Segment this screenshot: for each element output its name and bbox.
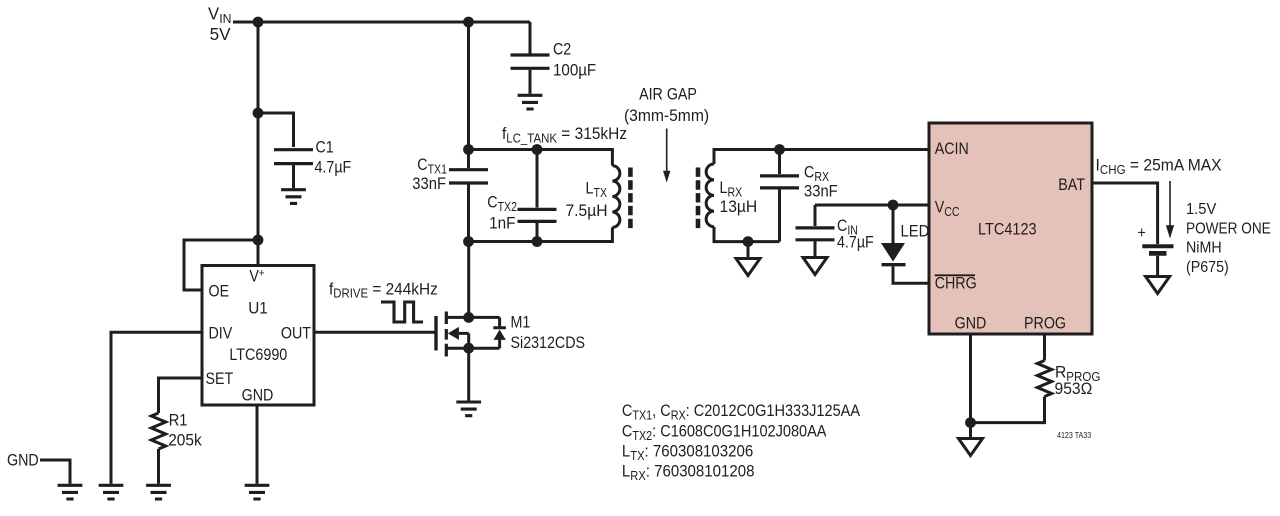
wire CIN top stub xyxy=(814,205,817,226)
junction M1 source xyxy=(463,343,474,354)
svg-text:(P675): (P675) xyxy=(1186,259,1229,276)
svg-text:7.5µH: 7.5µH xyxy=(565,201,607,220)
wire LRX bottom stub xyxy=(713,227,716,243)
wire LTX top stub xyxy=(611,148,614,166)
svg-text:CTX2: CTX2 xyxy=(487,193,517,214)
svg-text:fLC_TANK = 315kHz: fLC_TANK = 315kHz xyxy=(502,124,627,145)
svg-text:ACIN: ACIN xyxy=(935,140,969,158)
junction VIN-CTX1 branch xyxy=(463,17,474,28)
junction V+ OE xyxy=(253,235,264,246)
transistor M1 channel contacts xyxy=(445,312,448,357)
svg-text:SET: SET xyxy=(206,370,234,388)
svg-text:ICHG = 25mA MAX: ICHG = 25mA MAX xyxy=(1096,156,1222,177)
wire OUT to M1 gate xyxy=(313,331,436,334)
ground under C2 xyxy=(518,95,543,109)
svg-text:LRX: 760308101208: LRX: 760308101208 xyxy=(622,462,755,483)
svg-text:(3mm-5mm): (3mm-5mm) xyxy=(624,106,709,125)
svg-text:AIR GAP: AIR GAP xyxy=(639,85,697,103)
svg-text:33nF: 33nF xyxy=(804,183,838,201)
wire CTX2 bottom stub xyxy=(536,223,539,242)
svg-text:CTX1, CRX: C2012C0G1H333J125AA: CTX1, CRX: C2012C0G1H333J125AA xyxy=(622,402,861,422)
capacitor CRX xyxy=(760,176,799,188)
svg-text:fDRIVE = 244kHz: fDRIVE = 244kHz xyxy=(329,280,438,301)
wire LTX bottom stub xyxy=(611,227,614,243)
wire LED anode xyxy=(892,205,895,243)
wire C1 branch xyxy=(258,113,294,147)
wire C1 bottom stub xyxy=(292,165,295,188)
svg-text:953Ω: 953Ω xyxy=(1055,379,1093,398)
svg-text:LTC6990: LTC6990 xyxy=(229,346,287,364)
svg-text:R1: R1 xyxy=(169,412,188,430)
wire RPROG to GND junction xyxy=(971,397,1045,423)
wire RX ground stub xyxy=(747,242,750,257)
svg-text:LTX: LTX xyxy=(586,179,608,200)
svg-text:4123 TA33: 4123 TA33 xyxy=(1057,430,1092,440)
wire CTX1 lower stub xyxy=(467,184,470,241)
wire PROG to RPROG xyxy=(1043,334,1046,361)
junction tank top left xyxy=(463,144,474,155)
charge current arrow xyxy=(1166,181,1174,239)
wire LRX top stub xyxy=(713,148,716,164)
op-amp U1 LTC6990 box xyxy=(202,266,314,406)
svg-text:LTC4123: LTC4123 xyxy=(978,220,1037,238)
svg-text:U1: U1 xyxy=(248,299,268,318)
wire CTX1 vertical xyxy=(467,22,470,168)
LED D1 xyxy=(881,243,906,265)
ground under DIV wire xyxy=(99,485,124,499)
svg-text:VIN: VIN xyxy=(208,3,231,26)
wire LED cathode to CHRG xyxy=(893,266,929,283)
RX core dashed line xyxy=(696,168,701,230)
junction GND PROG xyxy=(965,417,976,428)
wire VIN down to U1 xyxy=(257,22,260,266)
wire CIN bottom stub xyxy=(814,241,817,256)
capacitor C1 xyxy=(274,150,313,164)
ground under C1 xyxy=(281,190,306,204)
junction VIN-C1 branch xyxy=(253,17,264,28)
svg-text:1.5V: 1.5V xyxy=(1186,201,1217,218)
wire CTX2 top stub xyxy=(536,150,539,208)
svg-text:PROG: PROG xyxy=(1024,314,1066,332)
svg-text:4.7µF: 4.7µF xyxy=(837,233,874,251)
wire RX top rail to ACIN xyxy=(714,148,929,151)
wire drain up to tank xyxy=(467,242,470,318)
capacitor CTX2 xyxy=(518,209,557,221)
junction C1 tap xyxy=(253,108,264,119)
wire OE to V+ rail xyxy=(184,240,258,290)
junction RX ground xyxy=(743,236,754,247)
svg-text:OE: OE xyxy=(209,282,230,300)
svg-text:GND: GND xyxy=(955,314,987,332)
junction CTX2 top xyxy=(532,144,543,155)
svg-text:GND: GND xyxy=(7,451,39,469)
junction LED tap xyxy=(888,200,899,211)
wire M1 source to ground xyxy=(467,348,470,400)
resistor R1 xyxy=(151,413,165,449)
wire GND net xyxy=(40,460,70,484)
CHRG overline xyxy=(935,274,975,276)
body diode of M1 xyxy=(493,317,506,348)
svg-text:33nF: 33nF xyxy=(412,175,446,193)
ground under M1 xyxy=(456,402,481,416)
wire M1 source xyxy=(446,347,499,350)
svg-text:1nF: 1nF xyxy=(489,214,515,233)
wire C2 bottom stub xyxy=(529,70,532,94)
svg-text:C1: C1 xyxy=(316,138,334,156)
wire U1 GND pin to ground xyxy=(256,405,259,484)
wire battery to ground xyxy=(1156,256,1159,275)
capacitor CTX1 xyxy=(449,170,488,183)
wire LTC4123 GND to ground xyxy=(969,334,972,423)
wire VCC rail xyxy=(815,204,929,207)
wire C2 top stub xyxy=(529,22,532,54)
wire V+ stub xyxy=(257,240,260,266)
wire VIN top rail xyxy=(233,21,530,24)
svg-text:BAT: BAT xyxy=(1058,176,1085,194)
inductor LTX xyxy=(612,166,619,228)
square wave symbol xyxy=(381,302,423,322)
wire CRX top stub xyxy=(778,150,781,175)
battery BT1 xyxy=(1142,246,1173,253)
ground RX triangle xyxy=(736,259,760,276)
ground LTC4123 triangle xyxy=(959,439,983,456)
ground battery triangle xyxy=(1146,277,1170,294)
wire BAT to battery xyxy=(1092,183,1158,244)
inductor LRX xyxy=(706,164,714,227)
svg-text:M1: M1 xyxy=(511,313,531,331)
svg-text:13µH: 13µH xyxy=(720,197,758,216)
ground symbol GND net xyxy=(58,485,83,499)
svg-text:C2: C2 xyxy=(553,40,571,58)
wire GND junction stub xyxy=(969,423,972,437)
svg-text:+: + xyxy=(1138,224,1146,242)
capacitor CIN xyxy=(796,228,835,240)
IC LTC4123 box xyxy=(929,123,1092,334)
svg-text:205k: 205k xyxy=(168,431,202,450)
svg-text:LED: LED xyxy=(901,223,930,241)
capacitor C2 xyxy=(511,55,550,68)
svg-text:CTX1: CTX1 xyxy=(417,156,447,177)
TX core dashed line xyxy=(628,168,633,230)
wire M1 drain xyxy=(446,316,499,319)
air gap arrow xyxy=(663,129,670,183)
wire SET to R1 xyxy=(159,378,204,413)
svg-text:CHRG: CHRG xyxy=(935,274,977,292)
svg-text:NiMH: NiMH xyxy=(1186,240,1222,257)
svg-text:LTX: 760308103206: LTX: 760308103206 xyxy=(622,442,753,463)
wire DIV to ground xyxy=(111,332,203,484)
svg-text:100µF: 100µF xyxy=(553,61,596,80)
svg-text:POWER ONE: POWER ONE xyxy=(1186,221,1271,238)
junction tank bottom left xyxy=(463,236,474,247)
wire R1 to ground xyxy=(157,449,160,484)
ground CIN triangle xyxy=(803,258,827,275)
wire RX bottom rail xyxy=(714,240,780,243)
svg-text:5V: 5V xyxy=(210,24,231,45)
svg-text:4.7µF: 4.7µF xyxy=(315,158,352,176)
svg-text:DIV: DIV xyxy=(209,324,233,342)
transistor M1 gate bar xyxy=(434,316,437,351)
svg-text:GND: GND xyxy=(242,386,274,404)
transistor M1 body arrow xyxy=(448,327,469,348)
ground under U1 GND xyxy=(245,485,270,499)
wire CRX bottom stub xyxy=(778,189,781,241)
resistor RPROG xyxy=(1037,361,1051,397)
junction CRX top xyxy=(774,144,785,155)
wire tank top rail xyxy=(469,148,613,151)
svg-text:CTX2: C1608C0G1H102J080AA: CTX2: C1608C0G1H102J080AA xyxy=(622,423,827,443)
junction M1 drain xyxy=(463,312,474,323)
ground under R1 xyxy=(146,485,171,499)
svg-text:CRX: CRX xyxy=(804,163,829,184)
svg-text:OUT: OUT xyxy=(281,324,312,342)
wire tank bottom rail xyxy=(469,240,613,243)
svg-text:Si2312CDS: Si2312CDS xyxy=(511,334,586,352)
junction CTX2 bottom xyxy=(532,236,543,247)
